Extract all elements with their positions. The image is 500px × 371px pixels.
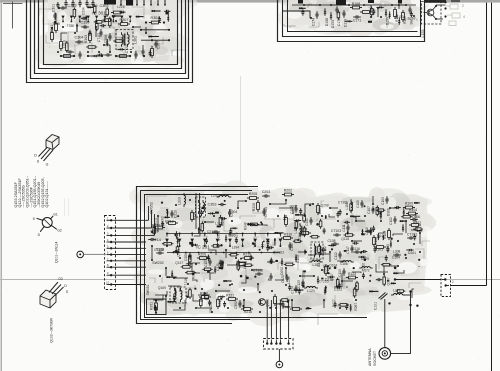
node page edge left <box>0 0 2 371</box>
svg-text:C120: C120 <box>281 275 285 283</box>
svg-text:R123: R123 <box>348 272 356 276</box>
resistor R108 <box>373 238 376 245</box>
svg-text:ANTENNA: ANTENNA <box>368 348 372 366</box>
svg-text:D159: D159 <box>386 17 390 25</box>
svg-text:C115: C115 <box>290 243 294 251</box>
node module C interior shading <box>124 180 436 326</box>
svg-text:C102: C102 <box>389 217 393 225</box>
capacitor C201 <box>310 217 312 220</box>
svg-text:SOCKET: SOCKET <box>373 350 377 366</box>
transformer T352 <box>170 287 186 303</box>
capacitor CT101 <box>407 237 410 239</box>
svg-text:C214: C214 <box>152 238 161 242</box>
wire IC rails <box>167 233 280 235</box>
svg-text:R215: R215 <box>218 299 222 307</box>
wire <box>486 3 488 286</box>
transistor package top (3D) <box>46 135 59 150</box>
capacitor C102 <box>394 216 396 219</box>
wire <box>403 294 411 296</box>
capacitor C171 <box>353 16 356 18</box>
svg-text:L308: L308 <box>393 250 401 254</box>
svg-text:L121: L121 <box>307 289 315 293</box>
svg-text:C306: C306 <box>104 35 108 44</box>
svg-text:C301: C301 <box>52 4 56 12</box>
svg-text:R211: R211 <box>152 224 160 228</box>
capacitor C307 <box>155 40 157 43</box>
svg-text:R208: R208 <box>221 218 225 226</box>
svg-text:2: 2 <box>462 4 464 8</box>
svg-text:L106: L106 <box>340 262 347 266</box>
transformer T201 <box>196 197 206 217</box>
capacitor C210 <box>171 210 173 213</box>
svg-text:Q101---3N114: Q101---3N114 <box>55 241 59 263</box>
svg-text:L394: L394 <box>232 245 240 249</box>
svg-text:D103: D103 <box>296 255 300 263</box>
svg-text:T102: T102 <box>323 246 327 253</box>
svg-text:C202: C202 <box>290 206 294 214</box>
resistor R302 <box>60 42 63 49</box>
capacitor C106 <box>410 219 413 221</box>
svg-text:L219: L219 <box>63 40 67 48</box>
diode D109 <box>361 256 363 258</box>
svg-text:R348: R348 <box>243 222 247 230</box>
svg-text:R108: R108 <box>374 237 378 245</box>
connector J103 <box>441 275 451 297</box>
svg-text:C352: C352 <box>234 301 238 309</box>
svg-text:C107: C107 <box>367 206 371 214</box>
resistor R206 <box>257 203 260 210</box>
svg-text:CT101: CT101 <box>407 233 417 237</box>
svg-text:C106: C106 <box>412 215 420 219</box>
transistor Q101 pinout <box>42 218 52 228</box>
node module A left column <box>54 12 56 15</box>
capacitor C207 <box>229 209 231 212</box>
svg-text:D153: D153 <box>331 20 335 28</box>
transformer L301 <box>116 30 133 50</box>
capacitor C173 <box>343 10 345 13</box>
capacitor C103 <box>386 196 388 199</box>
node input jack <box>77 251 84 258</box>
diode D158 <box>324 11 326 13</box>
svg-text:C110: C110 <box>365 227 369 235</box>
capacitor C122 <box>334 286 337 288</box>
resistor R219 <box>293 308 300 311</box>
capacitor C172 <box>336 6 338 9</box>
node module C generic parts <box>221 260 223 262</box>
capacitor C311 <box>66 51 69 53</box>
op-amp IC201 <box>166 233 168 235</box>
wire <box>56 13 146 52</box>
svg-text:R309: R309 <box>237 265 245 269</box>
capacitor C302 <box>65 0 67 3</box>
shield box module A redraw <box>27 0 193 83</box>
capacitor C208 <box>175 231 177 234</box>
capacitor C110 <box>370 227 372 230</box>
resistor R301 <box>55 24 58 31</box>
svg-text:D158: D158 <box>325 18 329 26</box>
inductor L101 <box>300 226 301 234</box>
capacitor C112 <box>339 251 341 254</box>
capacitor C304 <box>75 41 78 43</box>
svg-text:R267: R267 <box>354 303 358 311</box>
node pins right of Q151 <box>444 1 446 3</box>
node top-edge <box>0 0 500 3</box>
wire <box>267 300 288 339</box>
diode D105 <box>402 227 404 229</box>
resistor R212 <box>169 222 176 225</box>
svg-text:CT103: CT103 <box>331 229 341 233</box>
transistor Q151 box <box>422 2 442 25</box>
svg-text:C172: C172 <box>337 18 341 26</box>
svg-text:SW351: SW351 <box>146 284 150 295</box>
svg-text:C171: C171 <box>353 19 362 23</box>
inductor L106 <box>343 261 351 262</box>
svg-text:R221: R221 <box>226 293 234 297</box>
node antenna socket <box>379 348 391 360</box>
transformer T102 <box>311 242 323 259</box>
node module B interior shading <box>278 0 430 37</box>
capacitor C105 <box>361 200 363 203</box>
resistor R309 <box>239 263 246 266</box>
wire top rail B <box>292 4 416 6</box>
resistor R169 <box>402 13 405 20</box>
capacitor C108 <box>331 243 334 245</box>
capacitor C121 <box>221 262 223 265</box>
svg-text:D332: D332 <box>302 270 306 278</box>
svg-text:R206: R206 <box>252 203 256 211</box>
capacitor C116 <box>353 251 356 253</box>
diode D120 <box>330 276 332 278</box>
svg-text:L203: L203 <box>178 197 182 205</box>
svg-text:R210: R210 <box>243 252 251 256</box>
resistor R351 box <box>147 299 167 315</box>
capacitor C353 <box>218 204 221 206</box>
svg-text:R169: R169 <box>403 16 407 24</box>
resistor R310 <box>284 237 291 240</box>
svg-text:C283: C283 <box>160 216 164 224</box>
svg-text:CT227: CT227 <box>125 43 129 53</box>
svg-text:D120: D120 <box>325 278 333 282</box>
capacitor C306 <box>109 33 111 36</box>
transistor package bottom (3D) <box>40 290 56 308</box>
resistor R210 <box>245 257 252 260</box>
capacitor C305 <box>100 29 102 32</box>
svg-text:R351: R351 <box>149 302 153 310</box>
svg-text:C117: C117 <box>346 246 350 254</box>
svg-text:R202: R202 <box>284 189 293 193</box>
wire <box>304 5 406 17</box>
capacitor C117 <box>351 245 353 248</box>
capacitor C111 <box>347 224 349 227</box>
svg-text:C104: C104 <box>392 256 400 260</box>
inductor L105 <box>351 202 352 210</box>
svg-text:R212: R212 <box>165 220 174 224</box>
inductor L202 <box>219 195 229 197</box>
svg-text:IC 301: IC 301 <box>92 11 106 16</box>
svg-text:R366: R366 <box>200 291 208 295</box>
svg-text:Q137: Q137 <box>175 261 183 265</box>
wire <box>278 349 280 361</box>
svg-text:L172: L172 <box>362 269 369 273</box>
inductor L171 <box>394 294 403 296</box>
wire <box>12 2 14 29</box>
svg-text:C174: C174 <box>311 18 315 26</box>
wire <box>451 285 487 287</box>
diode D153 <box>330 15 332 17</box>
capacitor C352 <box>239 300 241 303</box>
capacitor CT103 <box>333 234 336 236</box>
resistor R208 <box>219 218 222 225</box>
inductor L121 <box>307 287 316 289</box>
svg-text:D388: D388 <box>387 208 391 216</box>
capacitor C209 <box>189 252 191 255</box>
connector J101 <box>105 216 116 290</box>
wire <box>152 193 420 309</box>
svg-text:R312: R312 <box>192 271 196 279</box>
svg-text:L102: L102 <box>312 263 319 267</box>
resistor R102 <box>412 224 419 227</box>
wire <box>384 299 386 348</box>
capacitor C107 <box>372 206 374 209</box>
svg-text:R101: R101 <box>375 248 383 252</box>
svg-text:R307: R307 <box>119 18 128 22</box>
svg-text:C121: C121 <box>216 263 220 271</box>
wire <box>141 39 169 41</box>
diode D103 <box>295 257 297 259</box>
capacitor C124 <box>295 285 297 288</box>
svg-text:D202: D202 <box>280 267 284 275</box>
svg-text:R104: R104 <box>409 208 417 212</box>
svg-text:C127: C127 <box>204 259 208 267</box>
svg-text:L301: L301 <box>134 36 138 44</box>
resistor R101 <box>377 246 384 249</box>
svg-text:R216: R216 <box>244 310 252 314</box>
capacitor C213 <box>212 231 215 233</box>
capacitor C115 <box>289 242 291 245</box>
capacitor C309 <box>92 0 94 3</box>
svg-text:C210: C210 <box>174 210 178 218</box>
resistor R254 <box>191 213 194 220</box>
wire <box>283 11 310 18</box>
diode D159 <box>385 12 387 14</box>
resistor R209 <box>200 257 207 260</box>
wire <box>391 292 411 354</box>
svg-text:C103: C103 <box>381 197 385 205</box>
svg-text:R304: R304 <box>150 16 159 20</box>
resistor R201 <box>317 206 320 213</box>
capacitor C123 <box>302 279 304 282</box>
wire <box>491 3 493 371</box>
resistor R306 <box>114 11 121 14</box>
svg-text:R205: R205 <box>249 192 258 196</box>
svg-text:C124: C124 <box>290 286 294 294</box>
svg-text:Q102---3K73GR: Q102---3K73GR <box>50 317 54 342</box>
svg-text:C309: C309 <box>88 4 97 8</box>
svg-text:C125: C125 <box>156 247 165 251</box>
shield box module B <box>278 0 425 42</box>
svg-text:T350: T350 <box>67 24 75 28</box>
capacitor C127 <box>209 258 211 261</box>
resistor R218 <box>274 297 277 304</box>
wire <box>39 0 185 61</box>
svg-text:R103: R103 <box>383 231 387 239</box>
resistor R211 <box>156 226 163 229</box>
resistor R307 <box>121 23 128 26</box>
wire <box>147 196 430 325</box>
svg-text:Q102,Q131------: Q102,Q131------ <box>45 180 49 207</box>
svg-text:C112: C112 <box>334 252 338 260</box>
capacitor CP201 <box>263 208 265 211</box>
node module A generic parts <box>149 50 151 52</box>
svg-text:C334: C334 <box>81 7 85 15</box>
node module B generic parts <box>398 20 400 22</box>
resistor ghost outlines <box>446 4 460 26</box>
svg-text:CP201: CP201 <box>264 207 268 217</box>
svg-text:R204: R204 <box>299 228 308 232</box>
svg-text:C303: C303 <box>99 4 108 8</box>
svg-text:R303: R303 <box>84 35 88 44</box>
resistor R205 <box>250 197 257 200</box>
node misc junctions A <box>62 26 64 28</box>
capacitor C113 <box>343 268 345 271</box>
capacitor C203 <box>262 195 265 197</box>
svg-text:C173: C173 <box>344 19 348 27</box>
wire <box>0 279 500 281</box>
capacitor C118 <box>270 273 272 276</box>
svg-text:R201: R201 <box>318 206 322 214</box>
svg-text:R209: R209 <box>198 253 206 257</box>
svg-text:G2: G2 <box>57 229 62 233</box>
capacitor C174 <box>316 11 318 14</box>
capacitor C104 <box>393 254 396 256</box>
resistor R166 <box>394 10 397 17</box>
node cut components top <box>104 0 116 5</box>
svg-text:IC 201: IC 201 <box>196 245 210 250</box>
transistor Q351 <box>259 299 266 306</box>
wire <box>284 1 417 28</box>
wire <box>240 76 242 193</box>
svg-text:2: 2 <box>452 280 454 284</box>
svg-text:4: 4 <box>463 15 465 19</box>
svg-text:C353: C353 <box>207 203 216 207</box>
resistor R105 <box>406 206 413 209</box>
wire <box>141 29 169 31</box>
resistor R216 <box>244 308 251 311</box>
inductor L102 <box>312 261 320 262</box>
svg-text:CT379: CT379 <box>235 232 239 242</box>
svg-text:L105: L105 <box>345 202 349 209</box>
svg-text:R105: R105 <box>405 202 413 206</box>
node junctions B <box>303 4 305 6</box>
wire <box>112 206 154 285</box>
svg-text:L171: L171 <box>393 289 401 293</box>
wire feed to mixer <box>395 279 441 281</box>
wire <box>3 2 23 4</box>
resistor R221 <box>229 298 236 301</box>
resistor R103 <box>388 231 391 238</box>
resistor R303 <box>89 34 92 41</box>
svg-text:R102: R102 <box>413 221 421 225</box>
svg-text:SW202: SW202 <box>152 261 164 265</box>
resistor R123 <box>349 276 356 279</box>
node extra junctions <box>260 221 262 223</box>
svg-text:G: G <box>46 163 49 167</box>
svg-text:C203: C203 <box>262 190 271 194</box>
svg-text:C201: C201 <box>305 218 309 226</box>
resistor R164 <box>363 11 370 14</box>
shield box module C redraw <box>137 187 259 324</box>
svg-text:..................: .................. <box>66 198 70 216</box>
capacitor C351 <box>282 301 284 304</box>
shield box module C <box>137 187 259 324</box>
junction dots field <box>166 209 168 211</box>
node test point <box>276 361 283 368</box>
svg-text:R310: R310 <box>284 233 292 237</box>
wire dark mesh C <box>153 208 419 310</box>
svg-text:C105: C105 <box>356 200 360 208</box>
node dark blob <box>336 0 346 5</box>
connector J102 <box>264 339 294 350</box>
svg-text:G1: G1 <box>53 213 58 217</box>
resistor R366 <box>202 296 209 299</box>
capacitor CT102 <box>255 273 258 275</box>
shield box module A <box>27 0 193 83</box>
svg-text:D: D <box>34 154 37 158</box>
svg-text:C113: C113 <box>338 269 342 277</box>
svg-text:C310: C310 <box>80 21 89 25</box>
capacitor C119 <box>267 261 270 263</box>
svg-text:C207: C207 <box>230 209 234 217</box>
inductor L172 <box>362 267 370 268</box>
capacitor C175 <box>409 6 411 9</box>
node module A bottom row <box>64 55 71 58</box>
capacitor C120 <box>286 274 288 277</box>
diode D122 <box>317 279 319 281</box>
svg-text:C304: C304 <box>74 36 83 40</box>
svg-text:R166: R166 <box>395 14 399 22</box>
svg-text:C111: C111 <box>342 224 346 231</box>
svg-text:C101: C101 <box>374 302 378 310</box>
diode D104 <box>281 261 283 263</box>
svg-text:C302: C302 <box>67 4 76 8</box>
svg-text:C108: C108 <box>327 239 335 243</box>
node module A interior shading <box>34 0 198 67</box>
capacitor C101 <box>379 293 386 299</box>
svg-text:G2: G2 <box>58 277 63 281</box>
wire <box>84 253 106 255</box>
svg-text:D177: D177 <box>332 299 336 307</box>
resistor R202 <box>285 193 292 196</box>
svg-text:Q169: Q169 <box>158 286 166 290</box>
svg-text:10: 10 <box>106 281 110 285</box>
capacitor C202 <box>295 205 297 208</box>
capacitor C308 <box>142 48 144 51</box>
diode D101 <box>409 249 411 251</box>
svg-text:C122: C122 <box>334 288 343 292</box>
inductor L203 <box>184 196 186 205</box>
resistor R215 <box>217 300 220 307</box>
svg-text:C123: C123 <box>297 280 301 288</box>
resistor R104 <box>409 212 416 215</box>
resistor R106 <box>325 267 328 274</box>
svg-text:C209: C209 <box>184 253 188 261</box>
resistor R204 <box>302 232 309 235</box>
resistor R304 <box>152 21 159 24</box>
op-amp IC301 <box>61 16 64 19</box>
capacitor C125 <box>156 252 159 254</box>
svg-text:SW: SW <box>410 19 414 24</box>
svg-text:T386: T386 <box>228 234 236 238</box>
